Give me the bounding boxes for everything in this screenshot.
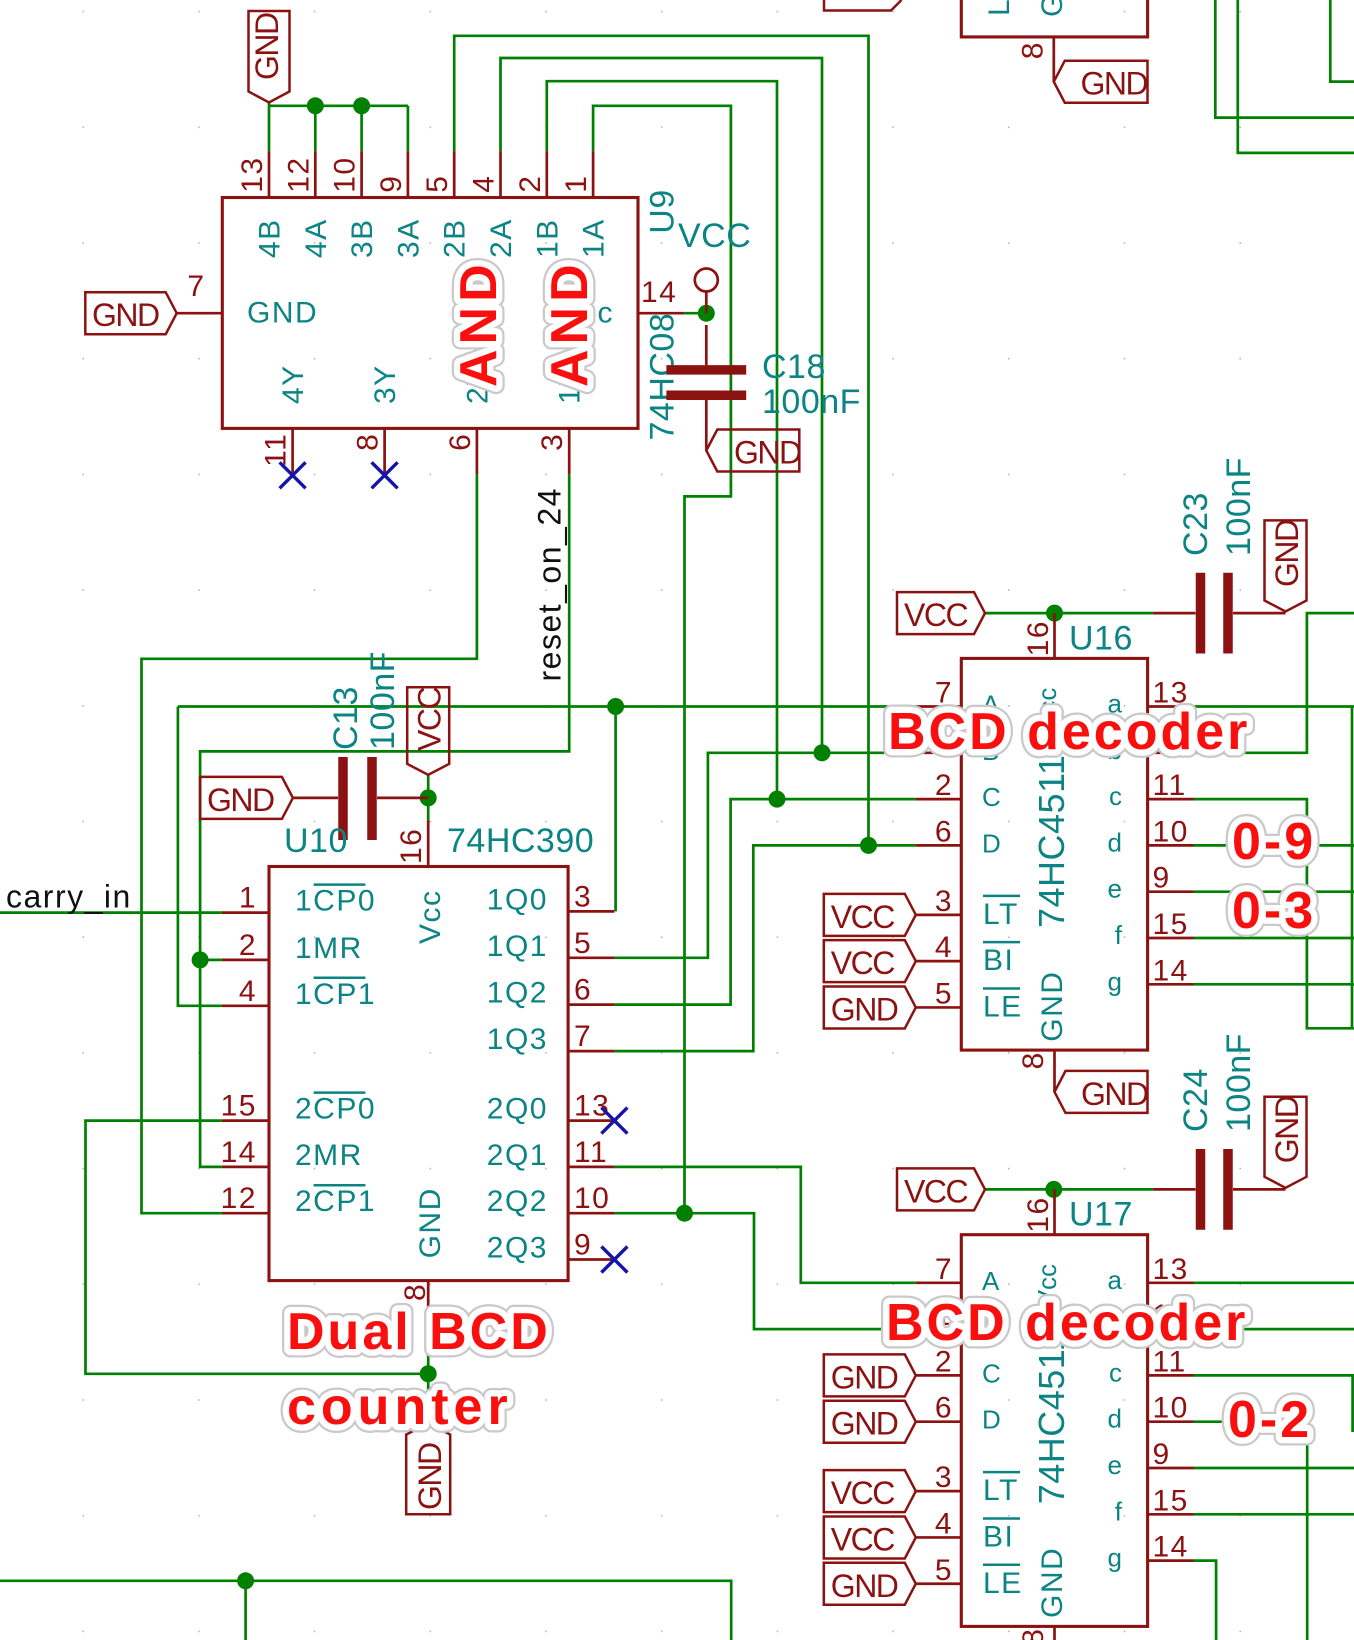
svg-text:1A: 1A bbox=[578, 218, 611, 258]
svg-text:16: 16 bbox=[1022, 620, 1055, 656]
wire U9 pin14 to VCC junction bbox=[684, 312, 706, 315]
svg-text:74HC08: 74HC08 bbox=[643, 313, 681, 441]
wire carry_in to U10 pin1 bbox=[0, 911, 222, 914]
svg-text:BCD decoder: BCD decoder bbox=[888, 703, 1250, 761]
svg-text:carry_in: carry_in bbox=[6, 879, 132, 915]
junction U16 VCC bbox=[1046, 605, 1063, 622]
wire 2Q2 to U17 B bbox=[614, 1213, 915, 1329]
svg-text:GND: GND bbox=[831, 1359, 898, 1395]
no-connect X at U9 pin 11 bbox=[280, 462, 306, 488]
power symbol GND flag at U15 pin8 bbox=[1054, 61, 1148, 103]
svg-text:GND: GND bbox=[412, 1443, 448, 1510]
junction 2A tap on B wire bbox=[814, 744, 831, 761]
svg-text:GND: GND bbox=[92, 297, 159, 333]
svg-text:A: A bbox=[982, 1266, 1000, 1296]
svg-text:BI: BI bbox=[983, 1520, 1014, 1553]
junction 1Q0 tee bbox=[607, 698, 624, 715]
svg-text:13: 13 bbox=[1153, 1253, 1189, 1286]
power symbol GND flag at U17 LE pin5 bbox=[824, 1563, 916, 1605]
U16 right pin stubs bbox=[1148, 707, 1194, 985]
svg-text:C18: C18 bbox=[762, 348, 826, 386]
svg-text:100nF: 100nF bbox=[364, 651, 402, 750]
junction 1B tap on C wire bbox=[769, 791, 786, 808]
wire U16 segment g to edge bbox=[1194, 983, 1354, 986]
wire U16 segment e to edge bbox=[1194, 890, 1354, 893]
junction 2B tap on D wire bbox=[860, 837, 877, 854]
svg-text:0-9: 0-9 bbox=[1232, 813, 1316, 871]
svg-text:1Q2: 1Q2 bbox=[487, 977, 548, 1010]
wire 1Q3 to U16 D bbox=[614, 845, 915, 1051]
U16 right pin names a b c d e f g bbox=[1108, 689, 1123, 997]
wire U17 segment d down to bottom edge bbox=[1194, 1422, 1308, 1640]
svg-text:6: 6 bbox=[444, 433, 477, 451]
svg-text:3B: 3B bbox=[346, 218, 379, 258]
U17 pin8 GND stub bbox=[1053, 1626, 1056, 1640]
svg-text:2A: 2A bbox=[485, 218, 518, 258]
junction on bottom wire bbox=[237, 1572, 254, 1589]
wire stub to 1MR pin2 bbox=[200, 959, 222, 962]
power symbol VCC flag at U16 pin16 bbox=[897, 592, 985, 634]
wire vertical bus at right edge bbox=[1351, 707, 1354, 1029]
svg-text:D: D bbox=[982, 828, 1001, 858]
svg-text:15: 15 bbox=[1153, 908, 1189, 941]
svg-text:9: 9 bbox=[574, 1229, 592, 1262]
svg-text:74HC390: 74HC390 bbox=[447, 822, 594, 860]
wire C13 junction to U10 pin16 bbox=[427, 775, 430, 820]
wire U16 segment d to edge bbox=[1194, 844, 1354, 847]
power symbol GND flag above U9 bbox=[249, 11, 290, 103]
svg-text:LE: LE bbox=[983, 990, 1023, 1023]
svg-text:4: 4 bbox=[468, 175, 501, 193]
svg-text:d: d bbox=[1108, 827, 1122, 857]
svg-text:e: e bbox=[1108, 1450, 1122, 1480]
U9 pin14 Vcc stub bbox=[638, 312, 684, 315]
wire U17 segment b to edge bbox=[1194, 1328, 1354, 1331]
svg-text:2Q3: 2Q3 bbox=[487, 1232, 548, 1265]
svg-text:8: 8 bbox=[1017, 1051, 1050, 1069]
svg-text:U16: U16 bbox=[1069, 619, 1133, 657]
svg-text:c: c bbox=[1109, 1357, 1122, 1387]
svg-text:14: 14 bbox=[1153, 954, 1189, 987]
svg-text:6: 6 bbox=[935, 815, 953, 848]
svg-text:2MR: 2MR bbox=[295, 1139, 363, 1172]
power symbol GND flag partial at U15 LE pin bbox=[824, 0, 902, 11]
svg-text:U9: U9 bbox=[643, 189, 681, 233]
U10 pin8 GND stub bbox=[427, 1281, 430, 1327]
svg-text:74HC4511: 74HC4511 bbox=[1031, 755, 1072, 928]
wire U17 segment g down to bottom edge bbox=[1194, 1561, 1217, 1640]
wire VCC to U17 pin16 and C24 bbox=[985, 1188, 1153, 1191]
svg-text:VCC: VCC bbox=[412, 688, 448, 751]
svg-text:GND: GND bbox=[249, 13, 285, 80]
svg-text:VCC: VCC bbox=[904, 597, 967, 633]
svg-text:VCC: VCC bbox=[678, 217, 751, 255]
svg-text:BI: BI bbox=[983, 944, 1014, 977]
svg-text:5: 5 bbox=[935, 1554, 953, 1587]
svg-text:100nF: 100nF bbox=[1220, 457, 1258, 556]
svg-text:U10: U10 bbox=[284, 822, 348, 860]
svg-text:8: 8 bbox=[1016, 41, 1049, 59]
svg-text:Vcc: Vcc bbox=[414, 889, 447, 944]
power symbol VCC flag at U17 LT pin3 bbox=[824, 1470, 916, 1512]
U16 pin16 Vcc stub bbox=[1053, 613, 1056, 658]
U17 right pin stubs bbox=[1148, 1283, 1194, 1561]
svg-text:1CP0: 1CP0 bbox=[295, 885, 376, 918]
wire U17 segment a to edge bbox=[1194, 1281, 1354, 1284]
U10 right pin names 1Q0 1Q1 1Q2 1Q3 2Q0 2Q1 2Q2 2Q3 bbox=[487, 883, 548, 1264]
svg-text:11: 11 bbox=[260, 433, 293, 467]
svg-text:16: 16 bbox=[1022, 1196, 1055, 1232]
svg-text:10: 10 bbox=[1153, 815, 1189, 848]
wire U9 pin2 1B input from U16 C-net bbox=[547, 81, 777, 799]
svg-text:100nF: 100nF bbox=[762, 383, 861, 421]
svg-text:reset_on_24: reset_on_24 bbox=[532, 487, 568, 681]
junction at pin 12 top bbox=[307, 97, 324, 114]
svg-text:LE: LE bbox=[983, 0, 1016, 16]
svg-text:1B: 1B bbox=[531, 218, 564, 258]
svg-text:2Q1: 2Q1 bbox=[487, 1139, 548, 1172]
wire U16 segment a to edge bbox=[1194, 705, 1354, 708]
svg-text:1Q0: 1Q0 bbox=[487, 883, 548, 916]
svg-text:11: 11 bbox=[1153, 769, 1187, 802]
svg-text:e: e bbox=[1108, 874, 1122, 904]
U17 left pin numbers 7 1 2 6 3 4 5 bbox=[935, 1253, 953, 1587]
diode U16 74HC4511 BCD decoder body bbox=[961, 658, 1147, 1050]
wire U10 2CP0 to GND net bbox=[86, 1121, 429, 1374]
svg-text:8: 8 bbox=[1017, 1628, 1050, 1640]
svg-text:counter: counter bbox=[287, 1378, 513, 1436]
power symbol GND flag at U17 D pin6 bbox=[824, 1401, 916, 1443]
svg-text:5: 5 bbox=[421, 175, 454, 193]
svg-text:2CP1: 2CP1 bbox=[295, 1185, 376, 1218]
U10 left pin numbers 1 2 4 15 14 12 bbox=[221, 882, 257, 1216]
junction at 1MR bbox=[192, 951, 209, 968]
svg-text:0-2: 0-2 bbox=[1228, 1391, 1312, 1449]
svg-text:4A: 4A bbox=[300, 218, 333, 258]
svg-text:1MR: 1MR bbox=[295, 932, 363, 965]
svg-text:AND: AND bbox=[450, 259, 508, 387]
U10 right pin stubs bbox=[568, 911, 614, 1259]
svg-text:2Q2: 2Q2 bbox=[487, 1185, 548, 1218]
wire U17 segment e to edge bbox=[1194, 1467, 1354, 1470]
U10 left pin stubs bbox=[222, 913, 269, 1214]
svg-text:1: 1 bbox=[560, 175, 593, 193]
svg-text:a: a bbox=[1108, 1265, 1123, 1295]
wire U9 pin6 2Y output to U10 2CP1 bbox=[142, 474, 477, 1213]
svg-text:9: 9 bbox=[1153, 862, 1171, 895]
U15 pin8 GND stub bbox=[1052, 37, 1055, 82]
svg-text:9: 9 bbox=[375, 175, 408, 193]
svg-text:VCC: VCC bbox=[831, 1475, 894, 1511]
svg-text:C: C bbox=[982, 782, 1001, 812]
wire U16 segment c jog down to edge bbox=[1194, 799, 1354, 1028]
svg-text:2: 2 bbox=[239, 929, 257, 962]
wire U16 segment b jog up to edge bbox=[1194, 613, 1354, 753]
svg-text:7: 7 bbox=[187, 270, 205, 303]
svg-text:10: 10 bbox=[1153, 1392, 1189, 1425]
svg-text:4: 4 bbox=[935, 1507, 953, 1540]
U10 right pin numbers 3 5 6 7 13 11 10 9 bbox=[574, 880, 610, 1261]
junction at U9 VCC bbox=[698, 305, 715, 322]
power symbol VCC flag at U17 BI pin4 bbox=[824, 1516, 916, 1558]
power symbol VCC flag at U17 pin16 bbox=[897, 1168, 985, 1210]
U9 top pin stubs bbox=[269, 151, 593, 197]
wire VCC to U16 pin16 and C23 bbox=[985, 612, 1153, 615]
svg-text:4: 4 bbox=[935, 931, 953, 964]
svg-text:Dual BCD: Dual BCD bbox=[287, 1303, 551, 1361]
wire 2Q1 to U17 A bbox=[614, 1167, 915, 1283]
diode U17 74HC4511 BCD decoder body bbox=[961, 1235, 1147, 1627]
svg-text:C23: C23 bbox=[1177, 492, 1215, 556]
svg-text:7: 7 bbox=[574, 1020, 592, 1053]
svg-text:LT: LT bbox=[983, 898, 1019, 931]
svg-text:LT: LT bbox=[983, 1474, 1019, 1507]
svg-text:BCD decoder: BCD decoder bbox=[886, 1294, 1248, 1352]
svg-text:C13: C13 bbox=[327, 686, 365, 750]
svg-text:U17: U17 bbox=[1069, 1196, 1133, 1234]
svg-text:3Y: 3Y bbox=[369, 364, 402, 404]
wire U16 segment f to edge bbox=[1194, 937, 1354, 940]
svg-text:16: 16 bbox=[395, 828, 428, 864]
svg-text:f: f bbox=[1115, 1496, 1123, 1526]
wire GND net at U9 top pins 13,12,10,9 bbox=[269, 103, 408, 151]
svg-text:13: 13 bbox=[574, 1090, 610, 1123]
svg-text:7: 7 bbox=[935, 1253, 953, 1286]
junction at C13 VCC bbox=[420, 789, 437, 806]
svg-text:g: g bbox=[1108, 1543, 1122, 1573]
svg-text:3: 3 bbox=[935, 885, 953, 918]
wire 1Q2 to U16 C bbox=[614, 799, 915, 1005]
wire A-net 1Q0 to U10 1CP1 and U16 A bbox=[178, 707, 916, 1006]
power symbol GND flag right of C24 bbox=[1265, 1096, 1307, 1188]
U10 left pin names 1CP0 1MR 1CP1 2CP0 2MR 2CP1 bbox=[295, 885, 376, 1219]
svg-text:GND: GND bbox=[207, 782, 274, 818]
svg-text:4Y: 4Y bbox=[277, 364, 310, 404]
U17 right pin numbers 13 12 11 10 9 15 14 bbox=[1153, 1253, 1189, 1564]
junction U17 VCC bbox=[1045, 1181, 1062, 1198]
U17 right pin names a b c d e f g bbox=[1108, 1265, 1123, 1573]
svg-text:VCC: VCC bbox=[904, 1173, 967, 1209]
svg-text:1CP1: 1CP1 bbox=[295, 978, 376, 1011]
wire U9 pin5 2B input from U16 D-net bbox=[454, 36, 868, 846]
U9 bottom pin numbers 11 8 6 3 bbox=[260, 433, 570, 467]
svg-text:9: 9 bbox=[1153, 1438, 1171, 1471]
no-connect X at U9 pin 8 bbox=[372, 462, 398, 488]
svg-text:5: 5 bbox=[574, 927, 592, 960]
svg-text:C: C bbox=[982, 1358, 1001, 1388]
svg-text:8: 8 bbox=[352, 433, 385, 451]
U9 top pin numbers 13 12 10 9 5 4 2 1 bbox=[236, 156, 593, 192]
U16 pin8 GND stub bbox=[1053, 1050, 1056, 1092]
power symbol VCC flag at U16 LT pin3 bbox=[824, 894, 916, 936]
svg-text:GND: GND bbox=[1081, 1076, 1148, 1112]
svg-text:g: g bbox=[1108, 966, 1122, 996]
wire U9 pin1 1A input from 2Q2 net bbox=[593, 106, 731, 1213]
svg-text:14: 14 bbox=[1153, 1531, 1189, 1564]
junction at pin 10 top bbox=[353, 97, 370, 114]
power symbol GND flag below U16 pin8 bbox=[1055, 1071, 1149, 1113]
wire U10 pin8 GND to flag bbox=[427, 1327, 430, 1424]
svg-text:0-3: 0-3 bbox=[1232, 882, 1316, 940]
svg-text:13: 13 bbox=[236, 156, 269, 192]
svg-text:4B: 4B bbox=[254, 218, 287, 258]
svg-text:6: 6 bbox=[574, 974, 592, 1007]
svg-text:6: 6 bbox=[935, 1392, 953, 1425]
wire U9 pin4 2A input from U16 B-net bbox=[501, 58, 823, 753]
svg-text:VCC: VCC bbox=[831, 899, 894, 935]
svg-text:GND: GND bbox=[1036, 1547, 1069, 1618]
svg-text:GND: GND bbox=[247, 297, 318, 330]
svg-text:2CP0: 2CP0 bbox=[295, 1093, 376, 1126]
op-amp U9 74HC08 quad AND body bbox=[222, 198, 638, 429]
power symbol GND flag left of C13 bbox=[200, 777, 293, 819]
svg-text:GND: GND bbox=[734, 435, 801, 471]
svg-text:C24: C24 bbox=[1177, 1068, 1215, 1132]
U16 left pin names A B C D LT BI LE bbox=[982, 690, 1023, 1024]
svg-text:GND: GND bbox=[1036, 971, 1069, 1042]
power symbol GND flag at U17 C pin2 bbox=[824, 1354, 916, 1396]
wire top right L 3 bbox=[1330, 0, 1354, 82]
junction on U10 GND wire bbox=[420, 1365, 437, 1382]
U9 pin7 GND stub bbox=[177, 312, 223, 315]
svg-text:GND: GND bbox=[831, 1406, 898, 1442]
svg-text:74HC4511: 74HC4511 bbox=[1031, 1331, 1072, 1504]
svg-text:5: 5 bbox=[935, 977, 953, 1010]
U16 right pin numbers 13 12 11 10 9 15 14 bbox=[1153, 677, 1189, 988]
svg-text:GND: GND bbox=[414, 1187, 447, 1258]
power symbol GND flag right of C23 bbox=[1265, 520, 1307, 612]
svg-text:8: 8 bbox=[399, 1283, 432, 1301]
U16 left pin stubs bbox=[916, 707, 962, 1008]
svg-text:4: 4 bbox=[239, 975, 257, 1008]
svg-text:12: 12 bbox=[221, 1182, 257, 1215]
capacitor C18 bbox=[666, 325, 746, 450]
power symbol VCC flag at U16 BI pin4 bbox=[824, 940, 916, 982]
svg-text:1: 1 bbox=[239, 882, 257, 915]
svg-text:12: 12 bbox=[282, 156, 315, 192]
svg-text:GND: GND bbox=[831, 991, 898, 1027]
capacitor C13 bbox=[293, 757, 428, 840]
svg-text:f: f bbox=[1115, 920, 1123, 950]
svg-text:14: 14 bbox=[641, 276, 677, 309]
wire U17 segment c corner at edge bbox=[1194, 1375, 1353, 1432]
svg-text:11: 11 bbox=[574, 1136, 608, 1169]
svg-text:3: 3 bbox=[935, 1461, 953, 1494]
wire U17 segment f to edge bbox=[1194, 1513, 1354, 1516]
power symbol VCC on U9 pin14 bbox=[678, 217, 751, 313]
wire top right L 2 bbox=[1238, 0, 1354, 153]
svg-text:GND: GND bbox=[831, 1568, 898, 1604]
wire top right L 1 bbox=[1215, 0, 1354, 118]
svg-text:AND: AND bbox=[541, 259, 599, 387]
U10 pin16 Vcc stub bbox=[427, 820, 430, 866]
svg-text:2Q0: 2Q0 bbox=[487, 1093, 548, 1126]
wire reset_on_24 net U9 pin3 1Y to U10 1MR 2MR bbox=[200, 474, 569, 1167]
svg-text:15: 15 bbox=[1153, 1484, 1189, 1517]
svg-text:GND: GND bbox=[1269, 520, 1305, 587]
U17 left pin stubs bbox=[916, 1283, 962, 1584]
U9 bottom pin names 4Y 3Y 2Y 1Y bbox=[277, 364, 587, 404]
power symbol GND flag at U16 LE pin5 bbox=[824, 986, 916, 1028]
U17 left pin names A B C D LT BI LE bbox=[982, 1266, 1023, 1600]
svg-text:3: 3 bbox=[574, 880, 592, 913]
U17 pin16 Vcc stub bbox=[1053, 1189, 1056, 1234]
junction 1A tap on 2Q2 wire bbox=[676, 1205, 693, 1222]
diode U15 74HC4511 partial body at top edge bbox=[961, 0, 1147, 37]
wire 1Q1 to U16 B bbox=[614, 753, 915, 958]
svg-text:VCC: VCC bbox=[831, 945, 894, 981]
svg-text:1Q3: 1Q3 bbox=[487, 1023, 548, 1056]
svg-text:GND: GND bbox=[1269, 1096, 1305, 1163]
power symbol GND flag below C18 bbox=[706, 430, 801, 472]
svg-text:100nF: 100nF bbox=[1220, 1033, 1258, 1132]
no-connect X at U10 pin 9 bbox=[601, 1247, 627, 1273]
svg-text:3A: 3A bbox=[392, 218, 425, 258]
svg-text:3: 3 bbox=[536, 433, 569, 451]
svg-text:GND: GND bbox=[1081, 66, 1148, 102]
svg-text:15: 15 bbox=[221, 1090, 257, 1123]
no-connect X at U10 pin 13 bbox=[601, 1108, 627, 1134]
power symbol GND flag below U10 bbox=[406, 1424, 450, 1515]
svg-text:14: 14 bbox=[221, 1136, 257, 1169]
svg-text:D: D bbox=[982, 1405, 1001, 1435]
power symbol VCC flag above C13 bbox=[407, 687, 449, 775]
svg-text:10: 10 bbox=[574, 1182, 610, 1215]
U9 bottom pin stubs bbox=[293, 428, 570, 474]
svg-text:d: d bbox=[1108, 1404, 1122, 1434]
U16 left pin numbers 7 1 2 6 3 4 5 bbox=[935, 677, 953, 1011]
svg-text:1Q1: 1Q1 bbox=[487, 930, 548, 963]
power symbol GND flag at U9 pin7 bbox=[85, 292, 176, 334]
svg-text:LE: LE bbox=[983, 1567, 1023, 1600]
svg-text:10: 10 bbox=[329, 156, 362, 192]
svg-text:2B: 2B bbox=[439, 218, 472, 258]
svg-text:GND: GND bbox=[1036, 0, 1069, 17]
capacitor C23 bbox=[1153, 573, 1285, 654]
svg-text:2: 2 bbox=[514, 175, 547, 193]
transistor U10 74HC390 dual BCD counter body bbox=[269, 867, 568, 1281]
U9 top pin names 4B 4A 3B 3A 2B 2A 1B 1A bbox=[254, 218, 611, 258]
svg-text:c: c bbox=[1109, 781, 1122, 811]
wire bottom net exiting canvas bbox=[0, 1581, 731, 1640]
capacitor C24 bbox=[1153, 1149, 1285, 1230]
svg-text:2: 2 bbox=[935, 769, 953, 802]
svg-text:VCC: VCC bbox=[831, 1521, 894, 1557]
